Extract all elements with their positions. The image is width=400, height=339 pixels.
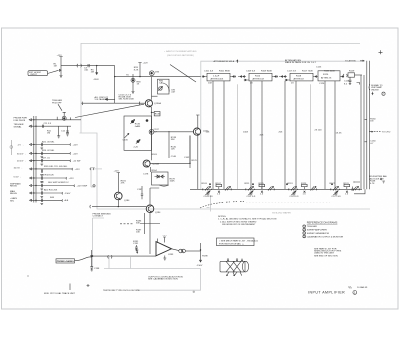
wire hook arc	[163, 83, 169, 92]
svg-text:2M: 2M	[91, 72, 94, 74]
svg-text:30K: 30K	[136, 223, 140, 225]
svg-text:ATTEN 4X: ATTEN 4X	[294, 77, 305, 80]
bottom right atten bal cluster	[370, 175, 388, 185]
wire from J1 to divider	[48, 70, 59, 73]
svg-text:ATTEN 2X: ATTEN 2X	[321, 77, 332, 80]
svg-text:R103: R103	[202, 183, 208, 185]
svg-text:+12V: +12V	[57, 55, 63, 57]
resistor R11	[47, 126, 60, 138]
wire input to pickoff	[82, 102, 146, 104]
attenuator section 2X	[316, 67, 344, 86]
attenuator section 100X	[202, 70, 236, 84]
switch contact R103	[202, 183, 214, 198]
svg-text:C101 3-9: C101 3-9	[204, 70, 214, 72]
svg-text:20 mV →: 20 mV →	[17, 161, 26, 163]
svg-text:REGIS: REGIS	[10, 186, 17, 188]
svg-text:R24 .02 SEL: R24 .02 SEL	[42, 150, 55, 152]
diode D83	[126, 74, 141, 92]
svg-text:+12V SWP: +12V SWP	[77, 185, 88, 187]
svg-text:MADE IN PAIRS FOR CH 1 & 2: MADE IN PAIRS FOR CH 1 & 2	[285, 61, 317, 64]
row gate sel	[10, 197, 69, 205]
svg-text:TD: TD	[126, 75, 129, 77]
transistor Q164	[143, 160, 160, 167]
gain set box	[123, 116, 152, 150]
svg-text:R198: R198	[202, 255, 208, 257]
svg-text:VOLTAGES: VOLTAGES	[95, 98, 107, 101]
attenuator section 10X	[244, 70, 278, 84]
row join bracket	[91, 168, 95, 188]
svg-text:Q134A: Q134A	[154, 102, 161, 105]
svg-text:C127 3-9: C127 3-9	[332, 196, 342, 198]
bottom rule line	[137, 269, 201, 291]
transistor Q184	[115, 192, 131, 202]
op-amp U193	[156, 236, 174, 261]
svg-text:TO ATTEN: TO ATTEN	[345, 60, 356, 63]
svg-text:FROM FRONT OF INSTRUMENT: FROM FRONT OF INSTRUMENT	[222, 224, 256, 226]
left margin bracket	[10, 140, 12, 155]
svg-text:+12V: +12V	[69, 178, 75, 180]
connector feedthrough at shield	[77, 64, 81, 67]
svg-text:100K: 100K	[170, 181, 176, 183]
supply tick above opamp	[136, 250, 138, 253]
bottom tick mark	[69, 284, 71, 291]
svg-text:REFERENCE DIAGRAMS: REFERENCE DIAGRAMS	[307, 221, 338, 225]
wire input to Q194	[92, 206, 146, 208]
wire Q194 emitter down	[149, 213, 151, 254]
wire base link	[154, 131, 194, 133]
row 20mV	[17, 157, 81, 165]
svg-text:5 mV →: 5 mV →	[14, 176, 22, 178]
capacitor C12	[61, 126, 69, 136]
output connector blob	[172, 249, 201, 253]
svg-text:10 JAN 69: 10 JAN 69	[357, 286, 368, 289]
row 50mV	[17, 150, 78, 158]
svg-text:C11 3.3: C11 3.3	[44, 123, 52, 125]
svg-text:100X: 100X	[243, 132, 249, 134]
svg-text:33K: 33K	[171, 139, 175, 141]
svg-text:2X 100: 2X 100	[315, 130, 323, 132]
svg-text:+ SAWTOOTH SWEEP APPLIED: + SAWTOOTH SWEEP APPLIED	[164, 50, 197, 53]
svg-text:INPUT: INPUT	[31, 74, 38, 76]
svg-text:10X: 10X	[208, 83, 212, 85]
wire sweep line	[115, 76, 201, 78]
svg-text:C187: C187	[137, 189, 143, 191]
svg-text:40X: 40X	[260, 134, 264, 136]
linkage dashed	[200, 202, 244, 208]
shield probe-loading box	[93, 195, 211, 270]
svg-text:4.7K: 4.7K	[370, 183, 375, 185]
svg-text:FOR P6028: FOR P6028	[14, 120, 26, 122]
svg-text:FOR SWITCH DETAIL △: FOR SWITCH DETAIL △	[219, 242, 244, 245]
svg-text:C162: C162	[184, 157, 190, 159]
svg-text:C117 3-9: C117 3-9	[287, 70, 297, 72]
ground at D83	[132, 92, 135, 94]
to-amp arrow right	[369, 131, 391, 134]
svg-text:.1 V →: .1 V →	[17, 145, 24, 147]
wire main signal vertical	[151, 107, 153, 160]
transistor Q73 pickoff	[57, 112, 70, 120]
svg-text:R110: R110	[255, 75, 261, 77]
wire long curve	[75, 104, 144, 117]
svg-text:R31 6.8K C31 .005 SEL: R31 6.8K C31 .005 SEL	[44, 166, 68, 168]
svg-text:C125: C125	[316, 67, 322, 69]
row mag regis	[10, 189, 71, 198]
connector arrow row INT	[14, 124, 72, 128]
svg-text:R111: R111	[245, 183, 251, 185]
resistor stack below Q164	[150, 154, 190, 172]
wire Q184 emitter down	[117, 200, 119, 207]
row 5mV	[14, 175, 75, 183]
important box	[217, 238, 259, 246]
input connector J1 label box	[28, 71, 48, 77]
svg-text:○ SEE MECH PARTS LIST - SW AC1: ○ SEE MECH PARTS LIST - SW AC101	[219, 239, 259, 242]
probe loading label	[56, 259, 75, 263]
svg-text:+12 SW: +12 SW	[73, 161, 82, 163]
svg-text:USED IN THIS UNIT: USED IN THIS UNIT	[314, 253, 335, 255]
svg-text:C119 3-9: C119 3-9	[290, 196, 300, 198]
svg-text:R118: R118	[296, 75, 302, 77]
svg-text:C198: C198	[94, 268, 100, 270]
svg-text:+12V: +12V	[73, 153, 79, 155]
switch wafer bottom chain	[190, 183, 362, 198]
svg-text:SW A 2ND WAFER: SW A 2ND WAFER	[272, 212, 291, 215]
svg-text:C109 3-9: C109 3-9	[246, 70, 256, 72]
svg-text:Q194: Q194	[155, 212, 161, 214]
svg-text:10 mV →: 10 mV →	[14, 168, 23, 170]
svg-text:NOTES:: NOTES:	[218, 216, 227, 218]
svg-text:Q184: Q184	[124, 200, 130, 202]
bottom rule end circle	[193, 291, 195, 293]
svg-text:1M: 1M	[370, 121, 373, 123]
svg-text:1M: 1M	[47, 133, 50, 135]
switch series R115	[259, 183, 275, 196]
shield attenuator box	[201, 61, 362, 189]
svg-text:PICKOFF: PICKOFF	[52, 102, 62, 104]
input RC at opamp	[133, 241, 139, 251]
signal out text block	[369, 84, 385, 96]
capacitor C3	[84, 64, 89, 72]
svg-text:47K: 47K	[121, 183, 125, 185]
svg-text:SWEEP GENERATOR: SWEEP GENERATOR	[307, 232, 330, 235]
row swp mag	[10, 182, 95, 190]
svg-text:TRIGGER: TRIGGER	[307, 226, 317, 228]
wire faint column 2	[310, 84, 312, 189]
svg-text:1.5 pF: 1.5 pF	[213, 75, 220, 77]
switch series R131	[344, 183, 360, 196]
svg-text:SEE CALIBRATION SECTION: SEE CALIBRATION SECTION	[148, 278, 178, 281]
wire Q174 collector	[196, 115, 199, 128]
svg-text:CALIBRATOR OUTPUT & MONITOR: CALIBRATOR OUTPUT & MONITOR	[307, 235, 344, 238]
svg-text:R21 .05 SEL: R21 .05 SEL	[42, 141, 55, 143]
right output corner	[357, 83, 360, 85]
wire Q194 collector	[150, 188, 159, 205]
wire r-chain junction	[140, 223, 160, 225]
row 10mV	[14, 166, 103, 176]
reference diagrams block	[303, 221, 344, 239]
wire input line	[61, 65, 115, 67]
svg-text:2. ALL SWITCH SECTIONS VIEWED: 2. ALL SWITCH SECTIONS VIEWED	[220, 220, 257, 223]
resistor chain R186	[136, 213, 145, 234]
svg-text:-150V: -150V	[65, 193, 71, 195]
wire emitter line	[150, 162, 190, 164]
svg-text:R27 .01: R27 .01	[42, 157, 50, 159]
output branch	[197, 243, 209, 267]
svg-text:SEL SWP HORIZ DC: SEL SWP HORIZ DC	[48, 182, 69, 184]
svg-text:R163: R163	[152, 154, 158, 156]
svg-text:R126: R126	[323, 74, 329, 76]
svg-text:C140: C140	[171, 156, 177, 158]
svg-text:INPUT AMPLIFIER: INPUT AMPLIFIER	[308, 291, 345, 295]
svg-text:C103 3-9: C103 3-9	[204, 196, 214, 198]
svg-text:A-B: A-B	[65, 199, 69, 202]
attenuator section 4X	[285, 70, 318, 84]
svg-text:R109 900K: R109 900K	[261, 70, 272, 72]
svg-text:TEKTRONIX TYPE OSCILLOSCOPE: TEKTRONIX TYPE OSCILLOSCOPE	[103, 290, 140, 292]
svg-text:C126: C126	[319, 83, 325, 85]
svg-text:+12V: +12V	[75, 169, 81, 171]
capacitor C160 right	[365, 141, 377, 145]
switch wafer rows left	[10, 141, 102, 204]
capacitor C11	[43, 123, 52, 128]
shield enclosure outer box	[80, 43, 371, 209]
svg-text:1M: 1M	[54, 66, 57, 68]
svg-text:R117 750K: R117 750K	[302, 70, 313, 72]
switch contact R119	[288, 183, 300, 198]
svg-text:SEE END OF SECTION: SEE END OF SECTION	[314, 256, 338, 258]
gain link dashed	[120, 223, 133, 225]
svg-text:+12V: +12V	[143, 63, 149, 65]
notes block	[218, 216, 277, 226]
transistor Q137	[149, 129, 154, 134]
shield opamp feedback bottom	[104, 257, 201, 269]
svg-text:C34 R34 8.2K: C34 R34 8.2K	[40, 175, 54, 177]
svg-text:PROBE LOADING: PROBE LOADING	[57, 260, 74, 263]
svg-text:(DECOUPLED NETWORK): (DECOUPLED NETWORK)	[167, 55, 194, 57]
resistor R5 to -150V	[91, 65, 100, 81]
svg-text:R101 990K: R101 990K	[219, 70, 230, 72]
switch series R123	[301, 183, 317, 196]
wire faint column	[237, 84, 239, 189]
svg-text:GAIN: GAIN	[135, 125, 141, 128]
svg-text:+12V: +12V	[73, 144, 79, 146]
svg-text:1X 4X: 1X 4X	[336, 132, 342, 134]
svg-text:R164: R164	[152, 170, 158, 172]
svg-text:C111 3-9: C111 3-9	[247, 196, 256, 198]
svg-text:2-25: 2-25	[134, 147, 139, 149]
svg-text:R176: R176	[192, 160, 198, 162]
svg-text:SEL NOM 130K: SEL NOM 130K	[119, 99, 135, 101]
svg-text:10X: 10X	[206, 132, 210, 134]
svg-text:R119: R119	[288, 183, 294, 185]
switch contact R111	[245, 183, 256, 198]
wire Q174 emitter legs	[190, 136, 198, 190]
wiper contacts	[209, 183, 211, 185]
bus column verticals	[212, 81, 214, 189]
svg-text:R135: R135	[155, 114, 161, 116]
svg-text:REGIS: REGIS	[10, 193, 17, 195]
svg-text:-150V: -150V	[197, 265, 203, 267]
attenuator section interlink 1	[238, 76, 246, 78]
svg-text:MOD 127C DUAL TRACE UNIT: MOD 127C DUAL TRACE UNIT	[44, 292, 76, 295]
switch series R107	[216, 183, 232, 196]
switch contact R127	[330, 183, 342, 198]
node input divider	[54, 55, 63, 78]
svg-text:TO CH 2: TO CH 2	[382, 132, 391, 134]
svg-text:+12V: +12V	[114, 171, 120, 173]
wire opamp minus input	[92, 255, 156, 257]
svg-text:VIA SW: VIA SW	[371, 88, 379, 91]
svg-text:ATTEN 100X: ATTEN 100X	[211, 77, 224, 80]
transistor Q174	[193, 128, 209, 135]
feedback diode box	[143, 172, 176, 186]
svg-text:CONTACT: CONTACT	[93, 215, 104, 218]
svg-text:R129: R129	[349, 71, 355, 73]
wire wafer line	[190, 188, 362, 190]
svg-text:C178: C178	[143, 174, 149, 176]
svg-text:50 mV →: 50 mV →	[17, 153, 26, 155]
svg-text:ATTENUATOR SW A: ATTENUATOR SW A	[214, 60, 235, 63]
wire corner down to pickoff	[114, 66, 116, 104]
attenuator section interlink 2	[279, 76, 287, 78]
svg-text:ATTEN 10X: ATTEN 10X	[253, 77, 265, 80]
svg-text:SWEEP AMPLIFIER: SWEEP AMPLIFIER	[307, 229, 327, 232]
parts list note	[314, 247, 342, 257]
attenuator output network	[343, 71, 362, 86]
wire wavy probe	[75, 257, 92, 261]
svg-text:R127: R127	[330, 183, 336, 185]
node +12V feed	[134, 63, 149, 77]
svg-text:Q164B: Q164B	[152, 164, 159, 166]
svg-text:SIGNAL: SIGNAL	[14, 125, 23, 128]
svg-text:C135: C135	[123, 140, 129, 142]
svg-text:10K: 10K	[171, 149, 175, 151]
connector arrow row EXT	[14, 118, 82, 122]
row 100mV	[17, 141, 78, 149]
base network Q194	[137, 186, 143, 199]
resistor R160 right	[365, 118, 377, 122]
resistor R181	[114, 171, 127, 193]
transistor Q194	[146, 205, 161, 214]
wire diagonal	[170, 65, 196, 83]
svg-text:U193: U193	[168, 254, 174, 256]
svg-text:8.2K: 8.2K	[134, 69, 139, 71]
diode D93	[149, 71, 154, 76]
schematic title	[308, 291, 357, 295]
svg-text:-150V: -150V	[93, 79, 99, 81]
registration mark top right	[379, 50, 383, 54]
transistor Q134A	[145, 100, 161, 107]
resistor ladder right of box	[169, 131, 177, 158]
stray dot	[28, 276, 29, 277]
switch cam drawing	[220, 258, 249, 276]
svg-text:1. C₀R₀ AL UNUSED CONTACTS. SE: 1. C₀R₀ AL UNUSED CONTACTS. SEE TYPICAL …	[218, 218, 277, 221]
svg-text:20X: 20X	[279, 132, 283, 134]
svg-text:10K: 10K	[136, 232, 140, 234]
capacitor C196	[90, 250, 100, 271]
bus dual vertical left	[34, 116, 36, 203]
svg-text:C191: C191	[133, 243, 139, 245]
bottom right wire jog	[351, 181, 365, 194]
dc shift network box	[158, 79, 170, 94]
svg-text:ADJ R41 20K: ADJ R41 20K	[44, 189, 58, 192]
